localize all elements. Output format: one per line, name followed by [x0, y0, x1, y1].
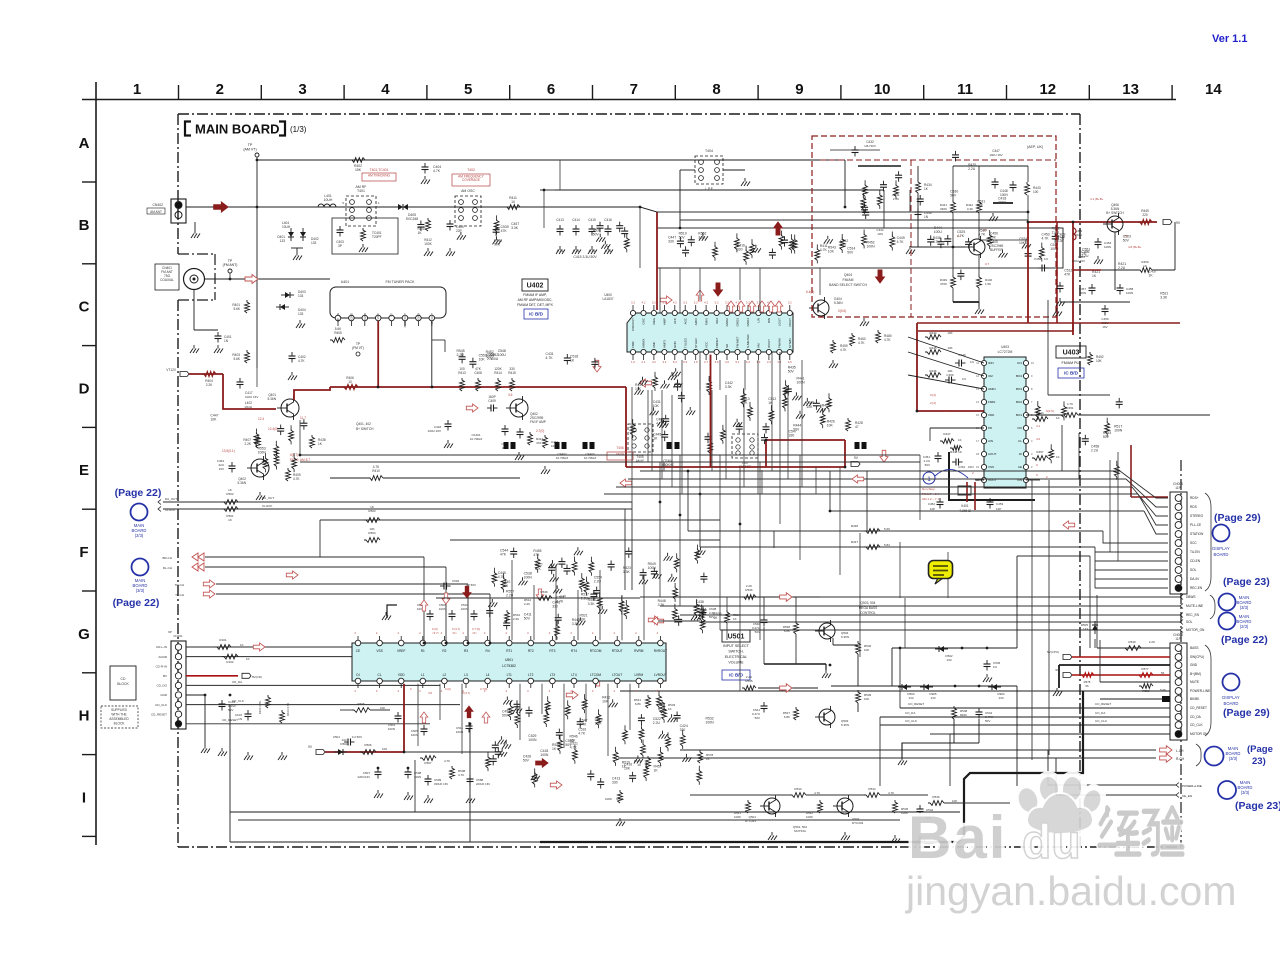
svg-text:4.6: 4.6 — [788, 360, 792, 364]
svg-text:1K: 1K — [246, 657, 250, 661]
svg-text:1K: 1K — [370, 505, 374, 509]
svg-text:6.5: 6.5 — [683, 360, 687, 364]
svg-text:du: du — [1022, 816, 1081, 869]
svg-text:U501: U501 — [728, 633, 745, 640]
svg-text:Q404: Q404 — [844, 273, 852, 277]
svg-text:3.3K: 3.3K — [623, 570, 631, 574]
svg-text:Q503, 504: Q503, 504 — [861, 601, 876, 605]
svg-text:GND: GND — [416, 312, 420, 320]
svg-text:3.8: 3.8 — [715, 360, 719, 364]
svg-text:820K: 820K — [960, 713, 967, 717]
svg-text:5.4: 5.4 — [673, 360, 677, 364]
svg-text:U402: U402 — [527, 282, 544, 289]
svg-text:R437: R437 — [851, 540, 859, 544]
svg-text:WITH THE: WITH THE — [111, 713, 126, 717]
svg-text:G: G — [78, 626, 90, 643]
svg-text:4.2: 4.2 — [642, 301, 646, 305]
svg-text:GND: GND — [160, 693, 168, 697]
svg-text:2.2U: 2.2U — [1052, 230, 1060, 234]
svg-text:RTCOM: RTCOM — [590, 649, 602, 653]
svg-text:2.4: 2.4 — [767, 360, 771, 364]
svg-text:4.7K: 4.7K — [978, 232, 986, 236]
svg-text:CO_RESET: CO_RESET — [908, 702, 924, 706]
svg-text:RL-CH: RL-CH — [163, 566, 172, 570]
svg-text:12.4: 12.4 — [258, 417, 264, 421]
svg-text:R438: R438 — [851, 524, 859, 528]
svg-text:SOL: SOL — [1186, 620, 1193, 624]
svg-text:<3.7>: <3.7> — [432, 631, 440, 635]
svg-text:C: C — [79, 299, 90, 316]
svg-text:DBWS: DBWS — [1186, 595, 1196, 599]
svg-text:CD_CLK: CD_CLK — [1190, 723, 1203, 727]
svg-text:STLED: STLED — [694, 337, 698, 348]
svg-text:IC B/D: IC B/D — [529, 312, 543, 317]
svg-text:1K: 1K — [418, 231, 423, 235]
svg-text:1K: 1K — [653, 437, 658, 441]
svg-text:(Page 22): (Page 22) — [113, 597, 160, 609]
svg-text:9V: 9V — [1176, 221, 1181, 225]
svg-text:1K: 1K — [240, 643, 244, 647]
svg-text:10K: 10K — [635, 387, 642, 391]
svg-text:10UH: 10UH — [282, 225, 291, 229]
svg-text:100N: 100N — [388, 727, 395, 731]
svg-text:FM/AM: FM/AM — [843, 278, 854, 282]
svg-text:R445: R445 — [929, 346, 937, 350]
svg-text:R502: R502 — [226, 492, 234, 496]
svg-text:R405: R405 — [334, 331, 342, 335]
svg-text:15K: 15K — [355, 168, 362, 172]
svg-text:3.3K: 3.3K — [1160, 295, 1168, 299]
svg-text:CD_CLK: CD_CLK — [155, 703, 167, 707]
svg-text:4.8 (B+B+: 4.8 (B+B+ — [1128, 245, 1142, 249]
svg-text:47K: 47K — [533, 553, 540, 557]
svg-text:jingyan.baidu.com: jingyan.baidu.com — [905, 868, 1236, 914]
svg-text:4.7K: 4.7K — [293, 477, 300, 481]
svg-text:100U: 100U — [998, 200, 1007, 204]
svg-text:133: 133 — [298, 312, 304, 316]
svg-text:(2/3): (2/3) — [135, 533, 144, 538]
svg-text:CN101: CN101 — [173, 634, 183, 638]
svg-text:4.2: 4.2 — [704, 301, 708, 305]
svg-text:CD_DO: CD_DO — [156, 684, 167, 688]
svg-text:4.7K: 4.7K — [433, 169, 441, 173]
svg-text:4.1: 4.1 — [945, 409, 950, 413]
svg-text:(Page 22): (Page 22) — [115, 487, 162, 499]
svg-text:100U: 100U — [490, 357, 499, 361]
svg-text:133: 133 — [908, 696, 913, 700]
svg-text:10K: 10K — [864, 648, 869, 652]
svg-text:FMDET: FMDET — [715, 338, 719, 348]
svg-text:2.2K: 2.2K — [560, 594, 566, 598]
svg-text:3.3K: 3.3K — [595, 722, 603, 726]
svg-text:100N: 100N — [439, 607, 446, 611]
svg-text:C453: C453 — [996, 502, 1004, 506]
svg-text:C502: C502 — [452, 579, 460, 583]
svg-text:3P: 3P — [338, 244, 342, 248]
svg-text:LC75382: LC75382 — [502, 664, 516, 668]
svg-text:R546: R546 — [932, 795, 940, 799]
svg-text:4.3: 4.3 — [662, 360, 666, 364]
svg-text:12P: 12P — [930, 507, 935, 511]
svg-text:2.7: 2.7 — [704, 360, 708, 364]
svg-text:10K: 10K — [806, 405, 813, 409]
svg-text:LA1837: LA1837 — [603, 297, 614, 301]
svg-text:B+ SWITCH: B+ SWITCH — [1106, 211, 1124, 215]
svg-text:50V: 50V — [502, 714, 509, 718]
svg-text:R104 2.7K: R104 2.7K — [258, 701, 262, 714]
svg-text:ANMIX: ANMIX — [642, 338, 646, 348]
svg-text:C409: C409 — [488, 399, 496, 403]
svg-text:(2/3): (2/3) — [1240, 624, 1249, 629]
svg-text:L3: L3 — [464, 673, 468, 677]
svg-text:4.7N: 4.7N — [605, 249, 612, 253]
svg-text:100N: 100N — [461, 607, 468, 611]
svg-text:OSCOUT: OSCOUT — [631, 318, 635, 331]
svg-text:(FM ANT): (FM ANT) — [223, 263, 238, 267]
svg-text:5.36N: 5.36N — [237, 481, 246, 485]
svg-text:4.7N: 4.7N — [589, 249, 596, 253]
svg-text:U403: U403 — [1063, 349, 1080, 356]
svg-text:0 [2]: 0 [2] — [930, 393, 936, 397]
svg-text:2.2K: 2.2K — [746, 675, 752, 679]
svg-text:R413: R413 — [458, 371, 466, 375]
svg-text:8 (3.7): 8 (3.7) — [462, 691, 470, 695]
svg-text:4.7K: 4.7K — [814, 791, 820, 795]
svg-text:50V: 50V — [755, 630, 760, 634]
svg-text:IFOUT: IFOUT — [767, 339, 771, 348]
svg-text:T406: T406 — [616, 446, 623, 450]
svg-text:SCC: SCC — [1190, 541, 1197, 545]
svg-text:100N: 100N — [414, 775, 421, 779]
svg-text:CO_DA: CO_DA — [1095, 711, 1105, 715]
svg-text:STEREO: STEREO — [1190, 514, 1204, 518]
svg-text:I: I — [82, 789, 86, 806]
svg-text:1K: 1K — [622, 764, 627, 768]
svg-text:220: 220 — [1142, 213, 1148, 217]
svg-text:GND: GND — [1190, 663, 1198, 667]
svg-text:AM 1.2 ~ 7.1: AM 1.2 ~ 7.1 — [922, 497, 939, 501]
svg-text:2.2K: 2.2K — [513, 617, 519, 621]
svg-text:56: 56 — [1161, 671, 1165, 675]
svg-text:16V: 16V — [1102, 325, 1107, 329]
svg-text:CLOCK: CLOCK — [262, 504, 272, 508]
svg-text:5.36N: 5.36N — [834, 301, 843, 305]
svg-text:1K: 1K — [1056, 455, 1060, 459]
svg-text:R446: R446 — [929, 369, 937, 373]
svg-text:COVERAGE: COVERAGE — [462, 178, 480, 182]
svg-text:(3/3): (3/3) — [1229, 756, 1238, 761]
svg-text:SW(CPU): SW(CPU) — [1190, 655, 1204, 659]
svg-text:1K: 1K — [228, 518, 232, 522]
svg-text:5.2: 5.2 — [652, 301, 656, 305]
svg-text:12P: 12P — [996, 507, 1001, 511]
svg-text:GND: GND — [673, 341, 677, 349]
svg-text:100N: 100N — [1126, 291, 1133, 295]
svg-text:1U 50V: 1U 50V — [352, 735, 362, 739]
svg-text:4.7K: 4.7K — [458, 773, 464, 777]
svg-text:B+ SWITCH: B+ SWITCH — [356, 427, 374, 431]
svg-text:CE_EN: CE_EN — [1182, 794, 1192, 798]
svg-text:FM TUNER PACK: FM TUNER PACK — [385, 280, 415, 284]
svg-text:4.7K: 4.7K — [884, 338, 891, 342]
svg-text:REC-EN: REC-EN — [1190, 586, 1203, 590]
svg-text:R507: R507 — [424, 761, 432, 765]
svg-text:6.2: 6.2 — [746, 360, 750, 364]
svg-text:6.4(0): 6.4(0) — [806, 290, 814, 294]
svg-text:10.7MHZ: 10.7MHZ — [584, 456, 597, 460]
svg-text:1K: 1K — [706, 757, 710, 761]
svg-text:1K: 1K — [1056, 416, 1060, 420]
svg-text:12.4(0): 12.4(0) — [268, 427, 278, 431]
svg-text:AMF2: AMF2 — [663, 340, 667, 348]
svg-text:(AM VT): (AM VT) — [243, 148, 256, 152]
svg-text:100K: 100K — [605, 797, 612, 801]
svg-text:IC B/D: IC B/D — [729, 673, 743, 678]
svg-text:CD_RESET: CD_RESET — [1190, 706, 1207, 710]
svg-text:330: 330 — [680, 728, 686, 732]
svg-text:CO_CLK: CO_CLK — [1095, 719, 1107, 723]
svg-text:A: A — [79, 135, 90, 152]
svg-text:TR-CH: TR-CH — [175, 583, 184, 587]
svg-text:SUPPLIED: SUPPLIED — [111, 708, 127, 712]
svg-text:(Page: (Page — [1247, 744, 1273, 755]
svg-text:GND: GND — [363, 312, 367, 320]
svg-text:R536: R536 — [540, 590, 548, 594]
svg-text:MUTING: MUTING — [794, 829, 806, 833]
svg-text:DI: DI — [1019, 452, 1022, 456]
svg-text:U401: U401 — [341, 280, 350, 284]
svg-text:3.5: 3.5 — [777, 360, 781, 364]
svg-text:R577: R577 — [1141, 667, 1149, 671]
svg-text:330UF 16V: 330UF 16V — [434, 782, 448, 786]
svg-text:C413: C413 — [556, 218, 564, 222]
svg-text:R102: R102 — [226, 660, 234, 664]
svg-text:MOTOR_ON: MOTOR_ON — [1186, 628, 1205, 632]
svg-text:10K: 10K — [1019, 241, 1026, 245]
svg-text:FM/AM PLL: FM/AM PLL — [1062, 361, 1081, 365]
svg-text:K401: K401 — [961, 504, 969, 508]
svg-text:10U 50V: 10U 50V — [864, 144, 876, 148]
svg-text:BLOCK: BLOCK — [114, 722, 126, 726]
svg-text:4.7K: 4.7K — [546, 356, 554, 360]
svg-text:CONTROL: CONTROL — [860, 611, 876, 615]
svg-text:13: 13 — [1122, 81, 1139, 98]
svg-text:CD_DA: CD_DA — [232, 680, 242, 684]
svg-text:1K: 1K — [1143, 264, 1147, 268]
svg-text:2.2K: 2.2K — [206, 383, 213, 387]
svg-text:2.7K: 2.7K — [893, 197, 899, 201]
svg-text:10.7MHZ: 10.7MHZ — [470, 437, 483, 441]
svg-text:AGC: AGC — [683, 317, 687, 324]
svg-text:3.3K: 3.3K — [511, 226, 519, 230]
svg-text:PLL-CE: PLL-CE — [1190, 523, 1201, 527]
svg-text:4.7K: 4.7K — [1067, 402, 1073, 406]
svg-text:FM MET: FM MET — [736, 336, 740, 348]
svg-text:STATION: STATION — [1190, 532, 1204, 536]
svg-text:10K: 10K — [210, 418, 217, 422]
svg-text:DO: DO — [1018, 426, 1023, 430]
svg-text:LVROUT: LVROUT — [654, 673, 667, 677]
svg-text:RIN: RIN — [767, 318, 771, 323]
svg-text:10UH: 10UH — [244, 405, 252, 409]
svg-text:9V: 9V — [854, 456, 859, 460]
svg-text:100: 100 — [1033, 190, 1039, 194]
svg-text:330: 330 — [552, 604, 558, 608]
svg-text:CL: CL — [1018, 439, 1022, 443]
svg-text:ROUT: ROUT — [788, 318, 792, 327]
svg-text:RT1: RT1 — [506, 649, 512, 653]
svg-text:S-METER: S-METER — [746, 334, 750, 348]
svg-text:10K: 10K — [947, 346, 952, 350]
svg-text:F: F — [79, 544, 88, 561]
svg-text:3.3K: 3.3K — [698, 236, 706, 240]
svg-text:TU-EN: TU-EN — [1190, 550, 1200, 554]
svg-text:5.2: 5.2 — [683, 301, 687, 305]
svg-text:4.7N: 4.7N — [573, 249, 580, 253]
svg-text:2.7(0): 2.7(0) — [536, 429, 544, 433]
svg-text:CD-L-IN: CD-L-IN — [156, 645, 167, 649]
svg-text:VCC: VCC — [376, 312, 380, 319]
svg-text:SWITCH,: SWITCH, — [728, 650, 743, 654]
svg-text:330: 330 — [668, 240, 674, 244]
svg-text:MUTE-LINE: MUTE-LINE — [1186, 604, 1203, 608]
svg-text:5: 5 — [464, 81, 472, 98]
svg-text:CE: CE — [1018, 465, 1022, 469]
svg-text:6.8K: 6.8K — [784, 629, 790, 633]
svg-text:1K: 1K — [668, 707, 672, 711]
svg-text:100N: 100N — [1079, 291, 1086, 295]
svg-text:VCC: VCC — [704, 341, 708, 348]
svg-text:3.7(0): 3.7(0) — [480, 687, 487, 691]
svg-text:AGND: AGND — [158, 655, 168, 659]
svg-text:3.3K: 3.3K — [725, 385, 733, 389]
svg-text:6.8K: 6.8K — [784, 715, 790, 719]
svg-text:100U: 100U — [648, 566, 657, 570]
svg-text:C449: C449 — [958, 353, 966, 357]
svg-text:11.7: 11.7 — [300, 416, 306, 420]
svg-text:133: 133 — [998, 696, 1003, 700]
svg-text:56: 56 — [1085, 684, 1089, 688]
svg-text:9V: 9V — [1055, 668, 1059, 672]
svg-text:CD_RESET: CD_RESET — [151, 712, 167, 716]
svg-text:4.0: 4.0 — [725, 360, 729, 364]
svg-text:5.6K: 5.6K — [233, 357, 240, 361]
svg-text:GND2: GND2 — [725, 318, 729, 327]
svg-text:10K: 10K — [827, 423, 834, 427]
svg-text:133: 133 — [946, 658, 951, 662]
svg-text:AM: AM — [757, 343, 761, 348]
svg-text:50V: 50V — [679, 236, 686, 240]
svg-text:LOUT: LOUT — [778, 318, 782, 326]
svg-text:4.7K: 4.7K — [888, 791, 894, 795]
svg-text:10K: 10K — [828, 249, 835, 253]
svg-text:100U: 100U — [934, 230, 943, 234]
svg-text:VREF: VREF — [397, 649, 406, 653]
svg-text:50V: 50V — [985, 719, 990, 723]
svg-text:2.2K: 2.2K — [244, 442, 251, 446]
svg-text:MEGA BASS: MEGA BASS — [859, 606, 878, 610]
svg-text:2.2U: 2.2U — [968, 167, 976, 171]
svg-text:R103 2.7K: R103 2.7K — [286, 703, 290, 716]
svg-text:VDD: VDD — [398, 673, 405, 677]
svg-text:1N: 1N — [970, 360, 974, 364]
svg-text:LT3: LT3 — [550, 673, 555, 677]
svg-text:LIN: LIN — [757, 318, 761, 323]
svg-text:AM RF AMP/MIX/OSC,: AM RF AMP/MIX/OSC, — [518, 298, 553, 302]
svg-text:LC7272M: LC7272M — [998, 350, 1013, 354]
svg-text:10K: 10K — [864, 697, 869, 701]
svg-text:133: 133 — [280, 239, 286, 243]
svg-text:C408: C408 — [474, 371, 482, 375]
svg-text:16V: 16V — [219, 467, 224, 471]
svg-text:Q401, 402: Q401, 402 — [356, 422, 371, 426]
svg-text:5.6K: 5.6K — [335, 327, 342, 331]
svg-text:U501: U501 — [505, 658, 513, 662]
svg-text:50V: 50V — [523, 759, 530, 763]
svg-text:12: 12 — [1039, 81, 1056, 98]
svg-text:4.7K: 4.7K — [897, 240, 905, 244]
svg-text:RDS+: RDS+ — [1190, 496, 1199, 500]
svg-text:133: 133 — [341, 738, 346, 742]
svg-text:BR-CH: BR-CH — [163, 556, 173, 560]
svg-text:FMIX: FMIX — [704, 318, 708, 325]
svg-text:3.6: 3.6 — [508, 393, 513, 397]
svg-text:MUTE: MUTE — [1190, 680, 1199, 684]
svg-text:H: H — [79, 708, 90, 725]
svg-text:U403: U403 — [1001, 345, 1009, 349]
svg-text:10: 10 — [874, 81, 891, 98]
svg-text:100N: 100N — [528, 738, 537, 742]
svg-text:LTCOM: LTCOM — [590, 673, 601, 677]
svg-text:CL: CL — [378, 673, 382, 677]
svg-text:5.36N: 5.36N — [267, 397, 276, 401]
svg-text:FMIN: FMIN — [988, 400, 995, 404]
svg-text:3.3K: 3.3K — [1057, 239, 1065, 243]
svg-text:14: 14 — [1205, 81, 1222, 98]
svg-text:50V: 50V — [565, 743, 572, 747]
svg-text:10UH: 10UH — [324, 198, 333, 202]
svg-text:R506: R506 — [364, 743, 372, 747]
svg-text:4.7K: 4.7K — [578, 732, 586, 736]
svg-text:L-CH: L-CH — [1176, 749, 1184, 753]
svg-text:R2: R2 — [442, 649, 446, 653]
svg-text:CD-R-IN: CD-R-IN — [156, 664, 168, 668]
svg-text:<0>: <0> — [452, 631, 457, 635]
svg-text:4.7K: 4.7K — [373, 465, 380, 469]
svg-text:CE: CE — [356, 649, 360, 653]
svg-text:3.2: 3.2 — [652, 360, 656, 364]
svg-text:T402: T402 — [467, 168, 475, 172]
svg-text:50V: 50V — [950, 194, 957, 198]
svg-text:(3/3): (3/3) — [1240, 605, 1249, 610]
svg-text:50V: 50V — [228, 708, 233, 712]
svg-text:100U 16V: 100U 16V — [428, 429, 441, 433]
svg-text:POWER-LINE: POWER-LINE — [1190, 689, 1210, 693]
svg-text:47K: 47K — [1064, 273, 1071, 277]
svg-text:B+(BM): B+(BM) — [1190, 672, 1201, 676]
svg-text:AM ANT: AM ANT — [150, 210, 162, 214]
svg-text:R543: R543 — [794, 787, 802, 791]
svg-text:R415: R415 — [508, 371, 516, 375]
svg-text:AOUT: AOUT — [988, 452, 997, 456]
svg-text:7: 7 — [630, 81, 638, 98]
svg-text:10N: 10N — [877, 232, 883, 236]
svg-text:GND4: GND4 — [746, 318, 750, 327]
svg-text:23): 23) — [1252, 756, 1266, 767]
svg-text:R447: R447 — [943, 432, 951, 436]
svg-text:4.2: 4.2 — [673, 301, 677, 305]
svg-text:IC B/D: IC B/D — [1064, 371, 1078, 376]
